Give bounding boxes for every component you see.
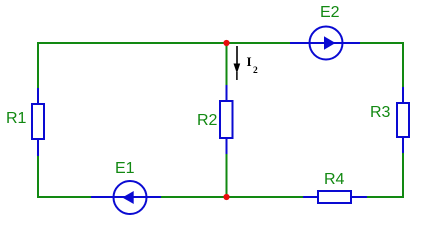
svg-text:R3: R3 [370, 104, 391, 121]
source E2 [290, 4, 360, 60]
wire middle vertical bottom [226, 154, 228, 197]
resistor R4 [303, 171, 367, 203]
wire top right green segment [360, 42, 404, 44]
svg-text:E1: E1 [115, 160, 135, 177]
node top (junction) [223, 40, 229, 46]
wire left vertical bottom [37, 155, 39, 198]
wire middle vertical top [226, 43, 228, 85]
source E1 [91, 160, 161, 214]
svg-text:R1: R1 [6, 110, 27, 127]
svg-text:I: I [247, 54, 252, 69]
wire right vertical bottom [402, 153, 404, 198]
svg-text:2: 2 [253, 66, 258, 76]
node bottom (junction) [223, 194, 229, 200]
resistor R2 [197, 85, 233, 154]
wire left vertical top [37, 42, 39, 88]
wire bottom right segment [367, 196, 404, 198]
svg-text:E2: E2 [320, 4, 340, 21]
svg-text:R4: R4 [324, 171, 345, 188]
resistor R3 [370, 87, 409, 153]
wire top left (node to left corner) [37, 42, 290, 44]
svg-text:R2: R2 [197, 112, 218, 129]
wire bottom left segment [37, 196, 91, 198]
current arrow I2 [234, 46, 259, 80]
wire right vertical top [402, 42, 404, 87]
resistor R1 [6, 88, 44, 156]
wire bottom middle segment [161, 196, 303, 198]
